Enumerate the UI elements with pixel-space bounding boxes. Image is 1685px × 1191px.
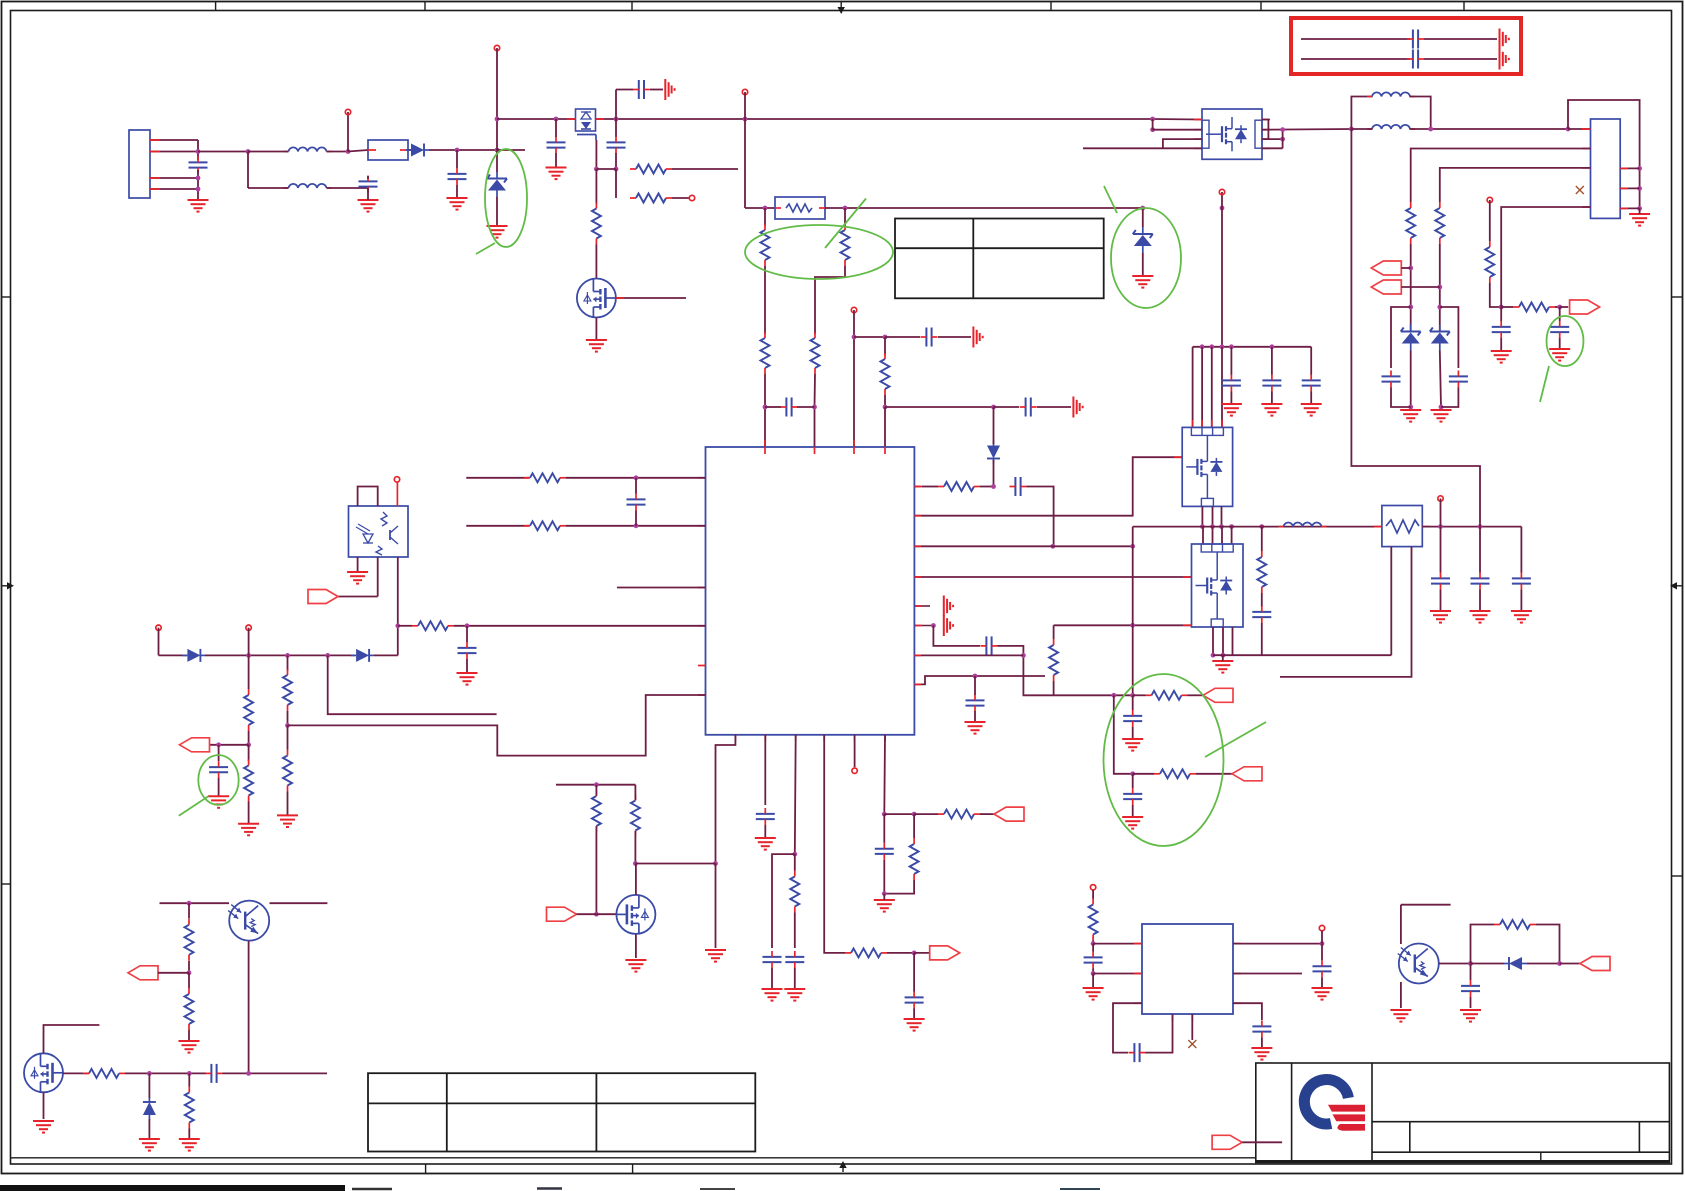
RS1 pin stubs xyxy=(1374,526,1430,528)
resistor R33 xyxy=(83,1069,125,1078)
capacitor C24 across FB xyxy=(627,494,646,511)
junction bus p1 xyxy=(1200,344,1205,349)
wire fuse to D1 xyxy=(408,149,411,151)
ground below C30 xyxy=(904,1019,925,1031)
wire choke input vertical xyxy=(247,152,249,189)
resistor R19 xyxy=(524,521,566,530)
junction bus p2 xyxy=(1209,344,1214,349)
junction RC row B feed xyxy=(1111,693,1116,698)
table bottom-center inner lines xyxy=(368,1073,755,1151)
wire R29 bottom xyxy=(634,831,636,864)
net label arrow ISENSE1 xyxy=(1203,688,1233,702)
wire C2 bottom xyxy=(555,153,557,168)
junction C3 node xyxy=(614,167,619,172)
ground below C36 xyxy=(1251,1048,1272,1060)
junction C9 to row 655 xyxy=(1021,653,1026,658)
resistor R1 row xyxy=(630,165,672,174)
zener diode ZD2 xyxy=(1133,227,1153,253)
wire R4-R5 xyxy=(764,266,766,334)
diode D1 input rectifier xyxy=(406,144,429,157)
capacitor C29 xyxy=(785,951,804,968)
ground below C28 xyxy=(762,989,783,1001)
resistor R35 xyxy=(1089,899,1098,941)
wire R8 to node xyxy=(884,395,886,407)
ground below Q3 xyxy=(625,960,646,972)
junction sense loop tap xyxy=(1566,127,1571,132)
wire C33 bottom xyxy=(1092,969,1094,974)
junction D2 top xyxy=(991,405,996,410)
wire R5 to IC pin xyxy=(764,374,766,447)
junction U3 out xyxy=(1320,941,1325,946)
wire U3 pin row b xyxy=(1093,973,1142,975)
resistor R7 divider lower xyxy=(811,332,820,374)
wire U5 out a xyxy=(1212,627,1214,655)
ground pin B1 xyxy=(705,950,726,962)
wire secondary bus xyxy=(1193,346,1312,348)
wire R27 left xyxy=(914,813,938,815)
junction VREF cap tap xyxy=(216,742,221,747)
U1 right pin stubs xyxy=(914,487,921,685)
junction RC par B xyxy=(912,812,917,817)
ground chain B xyxy=(1431,410,1452,422)
junction C6 node xyxy=(883,335,888,340)
junction RC par A xyxy=(882,812,887,817)
wire CX2 top stub xyxy=(367,176,369,179)
IC right pin stub r1 xyxy=(914,486,922,488)
terminal primary rail xyxy=(1219,189,1224,194)
wire U2 pin3 step xyxy=(1163,139,1202,148)
terminal primary aux xyxy=(742,89,747,94)
wire CN2 right pin3 xyxy=(1620,207,1639,209)
wire pin B1 down xyxy=(715,864,717,949)
wire arrow BIAS lead xyxy=(158,972,189,974)
wire aux A lead xyxy=(158,628,160,656)
wire pin B3 down xyxy=(794,735,797,854)
wire R11 to arrow xyxy=(1188,694,1204,696)
capacitor C26 xyxy=(209,761,228,778)
wire R34 top xyxy=(188,1073,190,1086)
resistor R20 xyxy=(412,621,454,630)
wire C19 top xyxy=(1310,347,1312,375)
wire C31 bottom xyxy=(883,860,885,894)
wire C21 top xyxy=(1440,527,1442,573)
wire R1 right xyxy=(672,168,738,170)
transistor Q5 xyxy=(24,1053,63,1092)
wire ZD2 top xyxy=(1142,208,1144,227)
wire output row to connector xyxy=(1568,128,1591,130)
wire R18 to pin xyxy=(566,477,706,479)
wire C11 bottom xyxy=(1132,727,1134,739)
wire C29 bottom xyxy=(794,968,796,989)
wire chain A mid xyxy=(1410,244,1412,332)
title block heavy base line xyxy=(1256,1160,1670,1163)
terminal U3 out xyxy=(1319,925,1324,930)
net label arrow CTRL xyxy=(930,946,960,960)
wire bus pin a xyxy=(1192,347,1194,428)
blank table bottom-center xyxy=(368,1073,755,1151)
capacitor C32 xyxy=(206,1064,223,1083)
ground output return xyxy=(1629,214,1650,226)
wire VDD vertical xyxy=(853,310,855,447)
capacitor C13 fold A xyxy=(1382,371,1401,388)
wire Q6 collector row xyxy=(1401,904,1451,906)
junction snubber to row xyxy=(1051,544,1056,549)
wire main HV rail segment 3 xyxy=(745,118,1153,120)
junction rail at C3 xyxy=(614,117,619,122)
fuse F1 pin stubs xyxy=(368,149,408,151)
wire R16 left xyxy=(1501,306,1513,308)
wire C8 right corner xyxy=(1027,487,1054,547)
title block logo cell divider xyxy=(1371,1063,1373,1163)
wire C36 bottom xyxy=(1261,1038,1263,1049)
title block divider left strip xyxy=(1291,1063,1293,1163)
resistor R34 xyxy=(185,1087,194,1129)
junction zener tap xyxy=(1140,206,1145,211)
chassis ground C7 xyxy=(1073,397,1082,418)
resistor R16 xyxy=(1513,303,1555,312)
wire C18 top xyxy=(1271,347,1273,375)
wire C21 bottom xyxy=(1440,590,1442,612)
junction pin B3 node xyxy=(792,852,797,857)
wire R30 bottom xyxy=(595,827,597,915)
terminal U3 vcc xyxy=(1090,885,1095,890)
wire C19 bottom xyxy=(1310,392,1312,405)
wire choke bottom leads xyxy=(1351,128,1372,130)
wire C20 bottom xyxy=(1261,623,1263,655)
wire D1 to node xyxy=(429,149,497,151)
wire D2 top lead xyxy=(993,407,995,444)
wire line to choke xyxy=(198,151,248,153)
ground chain A xyxy=(1400,410,1421,422)
wire R23 top lead xyxy=(287,655,289,671)
wire Q5 gate lead xyxy=(63,1072,89,1074)
table top-middle inner lines xyxy=(895,219,1104,299)
capacitor C22 output xyxy=(1471,573,1490,590)
junction Q4 divider tap xyxy=(187,901,192,906)
wire R31 bottom xyxy=(188,961,190,973)
resistor R32 xyxy=(185,988,194,1030)
wire R3 bottom to Q2 xyxy=(595,245,597,279)
junction choke in xyxy=(1349,127,1354,132)
wire drive top row xyxy=(556,784,635,786)
junction R26 node xyxy=(912,951,917,956)
wire R17 top xyxy=(1261,527,1263,551)
junction gate node xyxy=(594,167,599,172)
wire primary feed vertical xyxy=(744,92,746,208)
red annotation rectangle xyxy=(1291,18,1521,74)
wire C12 top xyxy=(1132,774,1134,788)
green leader ZD2 xyxy=(1104,186,1117,213)
wire R26 right xyxy=(887,952,914,954)
resistor R22 xyxy=(244,760,253,802)
wire sense row 625 xyxy=(1054,624,1133,626)
junction Q3 gate node xyxy=(594,912,599,917)
wire R3 top lead xyxy=(595,169,597,204)
optocoupler U6 xyxy=(349,506,409,557)
capacitor C7 xyxy=(1020,398,1037,417)
output connector CN2 xyxy=(1591,119,1621,218)
wire C16 bottom xyxy=(1559,338,1561,349)
wire choke out row xyxy=(1410,128,1569,130)
wire pin B5 stub xyxy=(854,735,856,767)
wire Q2 source xyxy=(595,318,597,341)
wire R33 right xyxy=(125,1072,206,1074)
wire C3 to node row xyxy=(615,153,617,169)
junction ZD3 gnd node xyxy=(1408,405,1413,410)
bottom edge text remnants xyxy=(352,1187,1100,1190)
wire fold B xyxy=(1440,307,1459,368)
wire C26 bottom xyxy=(218,778,220,796)
junction aux a xyxy=(246,653,251,658)
net label arrow BIAS xyxy=(128,966,158,980)
phototransistor Q4 xyxy=(228,901,269,941)
terminal VDD xyxy=(851,307,856,312)
junction sw row d xyxy=(1229,524,1234,529)
wire pin B1 jog xyxy=(716,735,736,864)
wire R8 top lead xyxy=(884,337,886,355)
wire Q4 emitter xyxy=(248,941,250,1073)
wire gnd pin jog down xyxy=(933,626,980,646)
capacitor C36 xyxy=(1252,1021,1271,1038)
dual MOSFET block U5 lower xyxy=(1192,544,1244,627)
wire R27 to arrow xyxy=(980,813,994,815)
wire C27 bottom xyxy=(764,825,766,838)
net label arrow DRV xyxy=(547,907,577,921)
IC pin stub top3 xyxy=(853,440,855,447)
wire C15 top xyxy=(1500,307,1502,321)
wire R34 bottom xyxy=(188,1129,190,1139)
resistor R15 xyxy=(1485,241,1494,283)
wire choke bottom left xyxy=(248,187,289,189)
resistor R25 xyxy=(790,871,799,913)
junction RC row B xyxy=(1130,771,1135,776)
wire R12 to arrow xyxy=(1196,773,1232,775)
wire U2 out strap xyxy=(1282,130,1284,149)
wire arrow to gate node xyxy=(577,913,597,915)
blank table top-middle xyxy=(895,219,1104,299)
wire R23 bottom xyxy=(287,711,289,725)
ground below R22 xyxy=(238,824,259,836)
junction aux b xyxy=(285,653,290,658)
resistor R30 xyxy=(592,790,601,832)
junction bus p3 xyxy=(1220,344,1225,349)
U1 bottom pin stubs xyxy=(735,735,885,741)
wire Q5 drain up xyxy=(44,1025,100,1053)
wire U4 out c xyxy=(1221,506,1223,526)
wire secondary gnd row xyxy=(1213,654,1391,656)
capacitor C23 output xyxy=(1512,573,1531,590)
wire C32 right xyxy=(223,1072,328,1074)
ground below C33 xyxy=(1083,988,1104,1000)
capacitor CY1 in annotation box xyxy=(1407,30,1424,49)
dual MOSFET block U2 sync rectifier xyxy=(1202,109,1262,159)
capacitor C37 xyxy=(1461,980,1480,997)
junction conn right 2 xyxy=(1637,186,1642,191)
wire C25 top xyxy=(466,626,468,642)
wire sense loop xyxy=(1568,100,1640,208)
no-connect X mark U3 xyxy=(1188,1040,1196,1048)
junction gate row b xyxy=(187,1071,192,1076)
U2 left pin stubs xyxy=(1194,120,1202,149)
title block mid-band divider 2 xyxy=(1638,1122,1640,1153)
junction ZD4 gnd node xyxy=(1439,405,1444,410)
IC right pin stub gnd2 xyxy=(914,625,933,627)
wire IC row 655 xyxy=(914,654,1023,656)
transistor Q2 startup MOSFET xyxy=(577,279,616,318)
junction input line A xyxy=(196,149,201,154)
wire node row right xyxy=(885,406,994,408)
wire Q1 source down xyxy=(595,140,597,169)
junction U2 in2 xyxy=(1150,127,1155,132)
wire Q6 base out xyxy=(1439,963,1471,965)
wire D5 top xyxy=(148,1073,150,1098)
green annotation ellipse around ZD2 xyxy=(1111,208,1181,308)
wire R22 bottom xyxy=(248,802,250,824)
resistor R12 xyxy=(1154,769,1196,778)
U1 left pin stubs xyxy=(698,478,706,695)
resistor R6 divider upper xyxy=(841,224,850,266)
junction drain node feed xyxy=(713,861,718,866)
junction D6 out xyxy=(1557,961,1562,966)
wire C10 bottom xyxy=(974,711,976,722)
transistor Q1 high-side switch xyxy=(576,109,597,140)
wire R2 right xyxy=(672,197,689,199)
wire R32 top xyxy=(188,973,190,988)
net label arrow VSENSE xyxy=(1570,300,1600,314)
inductor L2a output choke top xyxy=(1367,92,1415,96)
junction right divider tap xyxy=(843,206,848,211)
ground below neutral xyxy=(358,200,379,212)
wire shunt kelvin A xyxy=(1390,547,1392,656)
ground below C29 xyxy=(784,989,805,1001)
capacitor CX2 neutral xyxy=(359,176,378,193)
wire U5 out c xyxy=(1232,627,1234,655)
wire C26 top xyxy=(218,745,220,761)
upper block pin stubs xyxy=(1193,420,1222,427)
junction out cap a xyxy=(1438,524,1443,529)
junction opto to row xyxy=(395,623,400,628)
wire VS lead xyxy=(1489,200,1491,241)
junction main rail tap xyxy=(495,117,500,122)
junction line node xyxy=(346,149,351,154)
junction gnd row a xyxy=(1211,653,1216,658)
wire pin B2 down xyxy=(764,735,766,805)
wire to C4 xyxy=(616,89,633,91)
wire C22 bottom xyxy=(1479,590,1481,612)
wire C30 bottom xyxy=(913,1009,915,1020)
current shunt RS1 xyxy=(1382,506,1422,547)
wire C31 top xyxy=(883,814,885,843)
wire opto pin4 gnd xyxy=(357,557,359,572)
bottom border extra rule xyxy=(11,1157,1256,1159)
resistor R11 xyxy=(1146,691,1188,700)
wire into fusible resistor xyxy=(745,207,775,209)
wire vertical VCC xyxy=(496,48,498,150)
wire U2 out1 xyxy=(1262,120,1268,140)
wire U5 in a xyxy=(1202,527,1204,544)
wire chain B mid xyxy=(1439,244,1441,332)
wire IC row 684 jog xyxy=(914,676,1045,684)
wire R6 top lead xyxy=(844,208,846,226)
junction sense row xyxy=(1130,623,1135,628)
wire R9 left xyxy=(922,486,938,488)
right border zone ticks xyxy=(1672,297,1682,876)
wire C6 right xyxy=(938,336,971,338)
wire R36 right xyxy=(1536,925,1560,964)
net label arrow VOUT-A xyxy=(1371,261,1401,275)
phototransistor Q6 xyxy=(1398,944,1439,984)
wire ZD2 bottom xyxy=(1142,253,1144,276)
green leader slash R4R6 xyxy=(825,199,866,249)
ground below R34 xyxy=(179,1139,200,1151)
Q2 gate stub xyxy=(616,297,624,299)
title block bottom tick xyxy=(1540,1152,1542,1162)
wire to RC row B xyxy=(1114,695,1133,774)
wire ZD3 bottom xyxy=(1410,351,1412,408)
wire R11 left xyxy=(1133,694,1146,696)
chassis ground VDD xyxy=(973,327,982,348)
junction rail at bridge xyxy=(1150,117,1155,122)
wire C30 top xyxy=(913,953,915,992)
wire main HV rail into bridge xyxy=(1153,118,1202,121)
terminal pin B5 xyxy=(852,768,857,773)
ground below Q5 xyxy=(33,1121,54,1133)
IC pin stub top1 xyxy=(764,440,766,447)
wire VDD to C6 xyxy=(854,336,885,338)
wire R20 right xyxy=(454,625,706,627)
wire PGOOD lead xyxy=(1242,1141,1282,1143)
wire C3 node down xyxy=(615,169,617,198)
wire CN1 pin1 xyxy=(150,139,198,141)
wire fold B bottom xyxy=(1441,388,1458,408)
diode D6 xyxy=(1504,957,1527,970)
wire in annotation box top xyxy=(1301,38,1410,40)
junction FB upper xyxy=(634,475,639,480)
ground below C35 xyxy=(1312,988,1333,1000)
capacitor C15 xyxy=(1492,321,1511,338)
junction output row xyxy=(1428,127,1433,132)
junction DC node B xyxy=(495,148,500,153)
wire C16 top xyxy=(1559,307,1561,321)
capacitor C33 xyxy=(1084,952,1103,969)
wire R6 jog xyxy=(815,266,845,334)
wire C11 top xyxy=(1132,695,1134,710)
chassis ground in annotation box top xyxy=(1500,29,1509,50)
wire R32 bottom xyxy=(188,1030,190,1041)
junction divider mid node B xyxy=(812,405,817,410)
wire C37 top xyxy=(1470,964,1472,981)
wire U2 pin2 xyxy=(1153,129,1202,131)
fusible resistor FR1 xyxy=(775,197,825,219)
terminal TP1 xyxy=(689,195,694,200)
wire D6 right xyxy=(1527,963,1560,965)
wire arrow A lead xyxy=(1401,267,1410,269)
wire into fuse xyxy=(348,150,368,152)
capacitor C19 bus xyxy=(1302,375,1321,392)
net label arrow ISENSE2 xyxy=(1232,767,1262,781)
wire Q3 drain xyxy=(635,864,637,895)
capacitor C25 xyxy=(458,642,477,659)
wire C2 top xyxy=(555,119,557,137)
wire R10 bottom xyxy=(1053,681,1055,695)
resistor R27 xyxy=(938,810,980,819)
ground below C22 xyxy=(1470,611,1491,623)
junction conn right 3 xyxy=(1637,206,1642,211)
wire sense row to block pin xyxy=(1133,624,1192,626)
junction row676 cap tap xyxy=(973,674,978,679)
capacitor C10 xyxy=(966,695,985,712)
wire VOUT test lead xyxy=(1440,499,1442,527)
